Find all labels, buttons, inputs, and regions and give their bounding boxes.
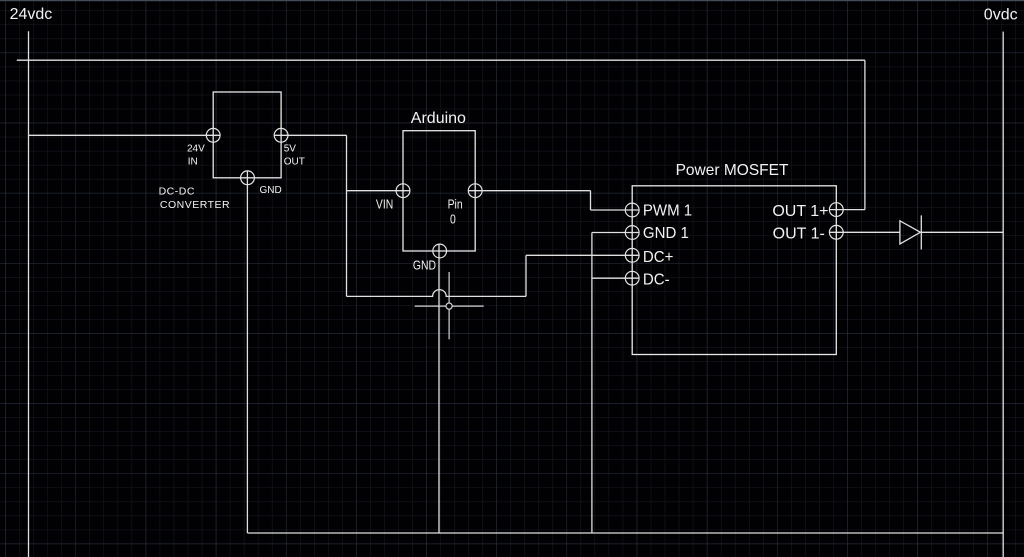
svg-text:VIN: VIN bbox=[376, 198, 393, 212]
svg-text:24V: 24V bbox=[187, 143, 205, 154]
wire arduino GND drop bbox=[438, 244, 440, 533]
svg-text:GND 1: GND 1 bbox=[643, 224, 689, 242]
pin U3 DC+ bbox=[625, 248, 639, 262]
svg-text:DC-: DC- bbox=[643, 271, 670, 289]
diode D1 bbox=[900, 215, 921, 249]
pin U1 5V OUT bbox=[274, 128, 288, 142]
svg-text:DC-DC: DC-DC bbox=[159, 186, 195, 198]
node 0vdc rail bbox=[1002, 32, 1004, 557]
wire DC+ riser bbox=[525, 255, 527, 296]
pin U3 OUT 1+ bbox=[829, 203, 843, 217]
svg-text:Power MOSFET: Power MOSFET bbox=[676, 162, 789, 179]
wire PWM 1 stub bbox=[591, 209, 640, 211]
svg-text:IN: IN bbox=[188, 156, 198, 167]
svg-text:CONVERTER: CONVERTER bbox=[160, 199, 230, 211]
pin U1 24V IN bbox=[206, 128, 220, 142]
wire 5V vertical drop bbox=[346, 135, 348, 296]
svg-text:Pin: Pin bbox=[448, 198, 463, 212]
svg-text:GND: GND bbox=[413, 258, 436, 272]
wire diode cathode to 0vdc rail bbox=[921, 231, 1003, 233]
pin U1 GND bbox=[241, 171, 255, 185]
svg-text:DC+: DC+ bbox=[643, 249, 673, 267]
svg-text:24vdc: 24vdc bbox=[10, 6, 53, 23]
svg-text:PWM 1: PWM 1 bbox=[643, 202, 692, 220]
pin U2 Pin 0 bbox=[468, 184, 482, 198]
svg-text:0vdc: 0vdc bbox=[984, 6, 1018, 23]
wire OUT 1+ stub bbox=[829, 209, 865, 211]
box U3 Power MOSFET bbox=[632, 186, 836, 355]
svg-text:OUT 1+: OUT 1+ bbox=[772, 203, 828, 220]
wire top bus from 24vdc rail bbox=[17, 59, 865, 61]
pin U2 GND bbox=[433, 244, 447, 258]
cursor crosshair bbox=[415, 272, 484, 339]
wire 24V IN feed bbox=[29, 134, 221, 136]
wire Pin 0 run bbox=[468, 190, 590, 192]
wire DC+ stub bbox=[526, 254, 639, 256]
wire ground bus bbox=[247, 532, 1003, 534]
wire VIN stub bbox=[347, 190, 411, 192]
svg-text:5V: 5V bbox=[284, 143, 297, 154]
wire Pin 0 drop to PWM 1 bbox=[590, 191, 592, 210]
wire converter GND drop bbox=[246, 171, 248, 533]
box U2 Arduino bbox=[403, 131, 475, 251]
pin U2 VIN bbox=[396, 184, 410, 198]
wire 5V run to DC+ with hop bbox=[347, 290, 527, 297]
svg-text:Arduino: Arduino bbox=[411, 110, 466, 127]
wire riser to OUT 1+ bbox=[864, 60, 866, 209]
svg-text:OUT: OUT bbox=[284, 156, 305, 167]
svg-text:0: 0 bbox=[450, 212, 456, 226]
pin U3 PWM 1 bbox=[625, 203, 639, 217]
node 24vdc rail bbox=[28, 31, 30, 557]
svg-text:GND: GND bbox=[260, 185, 282, 196]
wire GND 1 stub bbox=[592, 232, 639, 234]
wire GND 1 drop to ground bus bbox=[591, 233, 593, 534]
pin U3 OUT 1- bbox=[829, 225, 843, 239]
box U1 DC-DC converter bbox=[213, 92, 281, 178]
wire DC- stub bbox=[592, 277, 639, 279]
pin U3 GND 1 bbox=[625, 226, 639, 240]
wire 5V OUT feed bbox=[274, 134, 347, 136]
wire OUT 1- to diode anode bbox=[829, 231, 900, 233]
svg-text:OUT 1-: OUT 1- bbox=[773, 225, 825, 242]
pin U3 DC- bbox=[625, 271, 639, 285]
